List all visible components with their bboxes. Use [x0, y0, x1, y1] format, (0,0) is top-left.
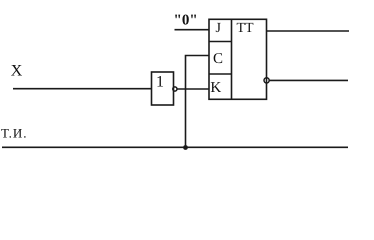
svg-text:TT: TT	[237, 21, 255, 36]
flip-flop U2 control column divider	[231, 19, 233, 99]
inverter U1 output inversion circle	[173, 87, 177, 91]
flip-flop U2 J/C cell divider	[209, 41, 232, 43]
wire clock vertical to C input	[186, 56, 210, 148]
wire output Q-inverted	[269, 79, 348, 81]
svg-text:1: 1	[156, 73, 164, 90]
wire output Q	[267, 30, 350, 32]
svg-text:"0": "0"	[174, 13, 198, 29]
svg-text:J: J	[216, 21, 222, 36]
wire X input	[13, 88, 152, 90]
junction dot on T.I. bus	[183, 145, 188, 150]
svg-text:C: C	[213, 51, 223, 67]
wire "0" to J input	[175, 29, 210, 31]
wire inverter output to K input	[177, 88, 209, 90]
flip-flop U2 body	[209, 19, 267, 99]
svg-text:Т.И.: Т.И.	[1, 126, 28, 141]
svg-text:K: K	[210, 80, 221, 96]
wire T.I. bus	[2, 146, 348, 148]
svg-text:X: X	[11, 63, 23, 80]
flip-flop U2 C/K cell divider	[209, 73, 232, 75]
output Q-inverted inversion circle	[264, 78, 269, 83]
inverter U1 box	[152, 72, 174, 105]
